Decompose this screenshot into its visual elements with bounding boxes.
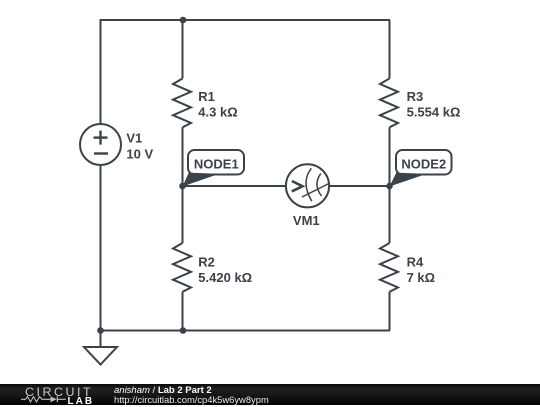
CircuitLab logo resistor-diode glyph and LAB bbox=[21, 396, 67, 403]
junction dot node B (NODE2) bbox=[386, 183, 393, 190]
resistor R2 bbox=[173, 243, 191, 292]
wire voltmeter to NODE2 bbox=[329, 185, 390, 187]
wire left vertical upper (to V1) bbox=[100, 19, 102, 125]
resistor R1 bbox=[173, 79, 191, 128]
svg-text:V1: V1 bbox=[126, 131, 142, 146]
svg-text:NODE1: NODE1 bbox=[194, 157, 239, 172]
wire bottom horizontal bbox=[101, 330, 391, 332]
junction dot node A (NODE1) bbox=[179, 183, 186, 190]
wire middle column upper (top to R1) bbox=[182, 20, 184, 79]
svg-text:R1: R1 bbox=[198, 89, 215, 104]
wire right column mid (R3 to R4) bbox=[389, 127, 391, 243]
voltmeter needle bbox=[302, 184, 329, 198]
footer bar bbox=[0, 384, 540, 405]
voltmeter chevron bbox=[292, 181, 303, 191]
svg-text:10 V: 10 V bbox=[126, 147, 153, 162]
svg-text:R2: R2 bbox=[198, 255, 215, 270]
junction dot bottom left bbox=[97, 327, 104, 334]
node NODE2 callout bbox=[390, 150, 452, 187]
voltmeter dial arc left bbox=[306, 168, 312, 201]
footer title bbox=[114, 386, 212, 396]
wire NODE1 to voltmeter bbox=[183, 185, 287, 187]
svg-text:4.3 kΩ: 4.3 kΩ bbox=[198, 105, 237, 120]
svg-text:VM1: VM1 bbox=[293, 213, 320, 228]
node NODE1 callout bbox=[183, 150, 245, 187]
wire right column lower (R4 to bottom) bbox=[389, 292, 391, 331]
V1 minus sign bbox=[94, 152, 108, 154]
svg-text:NODE2: NODE2 bbox=[401, 157, 446, 172]
wire left vertical lower (V1 to bottom) bbox=[100, 165, 102, 331]
footer url bbox=[114, 395, 269, 405]
junction dot bottom middle bbox=[180, 327, 187, 334]
svg-text:5.554 kΩ: 5.554 kΩ bbox=[407, 105, 461, 120]
wire top horizontal bbox=[101, 19, 391, 21]
V1 plus sign bbox=[94, 131, 109, 154]
junction dot top bbox=[180, 17, 187, 24]
voltmeter VM1 circle bbox=[286, 164, 329, 207]
svg-text:5.420 kΩ: 5.420 kΩ bbox=[198, 270, 252, 285]
resistor R3 bbox=[380, 79, 398, 128]
resistor R4 bbox=[380, 243, 398, 292]
voltmeter dial arc right bbox=[317, 173, 322, 196]
voltage source V1 circle bbox=[80, 124, 121, 165]
svg-text:7 kΩ: 7 kΩ bbox=[407, 270, 436, 285]
wire middle column mid (R1 to R2) bbox=[182, 127, 184, 243]
CircuitLab logo text bbox=[25, 386, 93, 398]
wire middle column lower (R2 to bottom) bbox=[182, 292, 184, 331]
wire right column upper (top to R3) bbox=[389, 20, 391, 79]
svg-text:R3: R3 bbox=[407, 89, 424, 104]
svg-text:R4: R4 bbox=[407, 255, 424, 270]
ground symbol bbox=[84, 331, 117, 365]
